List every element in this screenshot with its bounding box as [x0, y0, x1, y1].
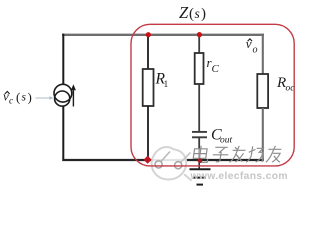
- wire rC to Cout: [198, 84, 200, 132]
- wire left vertical upper: [62, 34, 64, 85]
- wire right vertical upper: [262, 34, 264, 75]
- voltage source U1 outer circle: [54, 84, 72, 102]
- watermark logo tail: [184, 174, 191, 180]
- svg-text:(: (: [16, 90, 20, 105]
- svg-text:s: s: [22, 92, 27, 104]
- svg-text:): ): [28, 90, 32, 105]
- capacitor Cout top plate: [192, 131, 207, 133]
- svg-text:out: out: [220, 136, 233, 146]
- svg-text:(: (: [189, 6, 194, 22]
- node dot bottom middle: [198, 158, 203, 163]
- wire left vertical lower: [62, 106, 64, 161]
- ground bar 1: [190, 168, 211, 170]
- svg-text:o: o: [253, 45, 258, 56]
- watermark logo swoosh line 1: [161, 152, 170, 162]
- char fa: [229, 146, 246, 163]
- svg-text:v: v: [246, 36, 252, 51]
- wire rC branch top: [198, 34, 200, 54]
- node dot top middle: [197, 32, 202, 37]
- wire right vertical lower: [262, 108, 264, 161]
- red highlight rounded rect Z(s): [131, 24, 294, 166]
- wire Cout bottom: [198, 138, 200, 161]
- label vc(s): [3, 89, 32, 107]
- wire R1 branch top: [147, 34, 149, 70]
- svg-text:1: 1: [164, 80, 169, 90]
- resistor R1 body: [143, 69, 154, 106]
- label R1: [155, 71, 169, 91]
- svg-text:Z: Z: [179, 3, 189, 22]
- resistor Roc body: [257, 74, 268, 108]
- voltage source U1 inner circle: [55, 91, 70, 106]
- ground stub: [198, 160, 200, 169]
- svg-text:c: c: [9, 97, 14, 107]
- svg-text:s: s: [195, 6, 200, 21]
- capacitor Cout bottom plate: [192, 136, 207, 138]
- node dot bottom left: [144, 156, 152, 164]
- svg-text:): ): [201, 6, 206, 22]
- node dot top left: [146, 32, 151, 37]
- watermark logo blob: [152, 147, 187, 179]
- svg-text:www.elecfans.com: www.elecfans.com: [190, 171, 288, 182]
- ground bar 2: [193, 177, 206, 179]
- watermark logo swoosh line 2: [181, 153, 191, 163]
- watermark logo ring 1: [155, 161, 162, 168]
- char zi: [212, 147, 230, 162]
- svg-text:oc: oc: [286, 84, 296, 94]
- label Roc: [276, 75, 295, 94]
- label rC: [207, 55, 220, 75]
- wire top horizontal: [62, 34, 264, 36]
- char dian: [193, 146, 210, 163]
- char shao: [246, 146, 264, 162]
- voltage source arrow: [71, 84, 76, 106]
- wire bottom horizontal: [62, 159, 264, 161]
- wire R1 branch bottom: [147, 106, 149, 159]
- char you: [266, 146, 282, 163]
- svg-text:C: C: [212, 63, 220, 75]
- resistor rC body: [195, 53, 204, 84]
- label arrow to source: [36, 96, 54, 99]
- watermark chinese characters: [193, 146, 283, 163]
- label Cout: [211, 127, 233, 146]
- ground bar 3: [197, 184, 204, 186]
- label vo: [246, 36, 258, 56]
- watermark logo ring 2: [175, 162, 182, 169]
